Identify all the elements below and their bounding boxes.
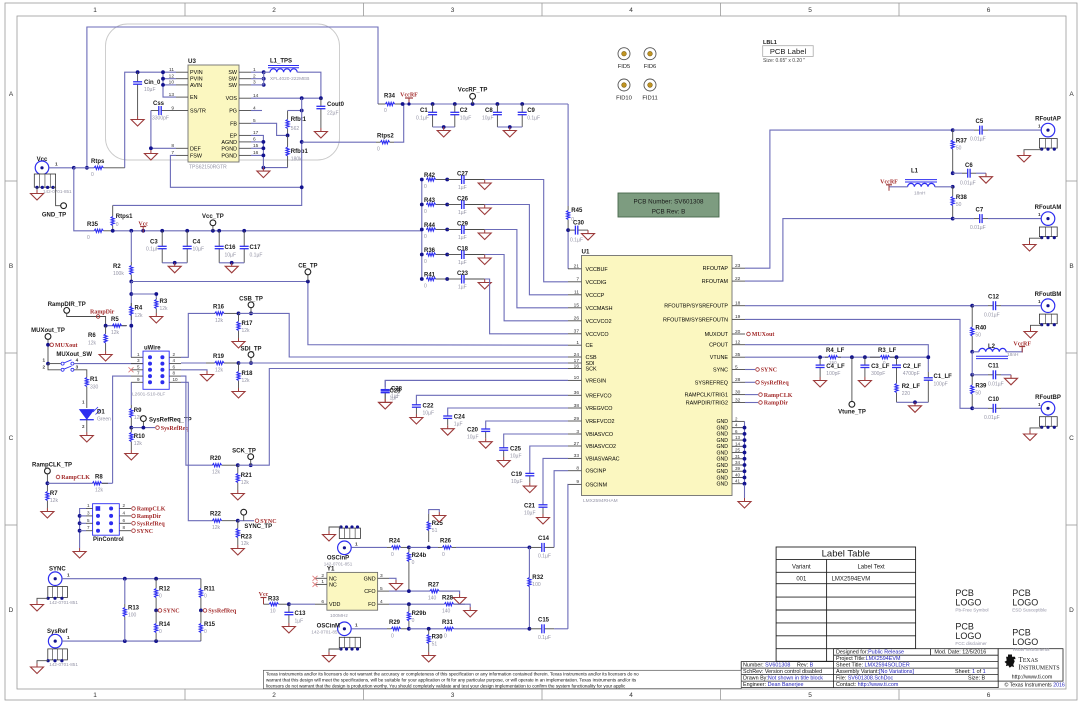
svg-text:GND: GND [716,438,728,444]
svg-text:1: 1 [576,340,579,346]
svg-text:MUXout_TP: MUXout_TP [31,328,65,334]
svg-text:50: 50 [956,146,962,152]
net label MUXout [50,343,54,347]
ground below C20 [479,438,492,448]
test point SDI_TP [250,355,252,363]
fiducial FID10 [618,79,630,91]
svg-text:RampDir: RampDir [90,310,115,316]
ground below R17 [232,338,245,348]
svg-text:R31: R31 [442,620,454,626]
wire CE net [129,280,133,284]
svg-text:LOGO: LOGO [1012,598,1038,608]
svg-text:GND: GND [716,457,728,463]
svg-text:CE: CE [586,343,594,349]
svg-text:C16: C16 [225,245,237,251]
svg-text:12k: 12k [111,330,120,336]
svg-text:0: 0 [442,552,445,558]
ground below C8 C9 [503,127,516,137]
svg-text:RampCLK: RampCLK [61,475,90,481]
svg-text:30: 30 [735,389,741,395]
svg-text:R10: R10 [134,434,146,440]
resistor R14 [155,610,157,623]
wire VccRF to R45 [567,104,569,206]
svg-text:RampDir: RampDir [137,514,162,520]
svg-text:7: 7 [87,525,90,530]
net label RampDir [96,315,100,319]
resistor R3_LF [870,356,880,358]
svg-text:C29: C29 [457,222,469,228]
svg-text:Size: 0.65" x 0.20 ": Size: 0.65" x 0.20 " [763,58,805,64]
svg-text:R34: R34 [384,94,396,100]
svg-text:8: 8 [173,371,176,376]
svg-text:3: 3 [137,358,140,363]
svg-text:PCB Number: SV601308: PCB Number: SV601308 [633,199,704,206]
svg-text:C5: C5 [976,119,984,125]
svg-text:MUXout_SW: MUXout_SW [56,352,92,358]
svg-text:SysRefReq: SysRefReq [208,609,237,615]
OSCinM connector shield [339,637,360,647]
ground below C19 [523,483,536,493]
svg-text:R45: R45 [571,208,583,214]
resistor R35 [93,230,95,232]
svg-text:1µF: 1µF [391,394,400,400]
svg-text:PCB: PCB [1012,588,1031,598]
wire FB node [251,123,288,135]
capacitor C28 [385,380,568,387]
svg-text:R18: R18 [242,371,254,377]
wire L1 to VOS node [297,72,321,98]
svg-text:GND: GND [716,432,728,438]
svg-text:140: 140 [442,609,451,615]
wire C27 to U1 [485,180,568,282]
svg-text:12k: 12k [160,306,169,312]
svg-text:1: 1 [55,162,58,168]
svg-text:FID5: FID5 [618,64,631,70]
test point CSB_TP [250,305,252,314]
test point CE_TP [307,272,309,282]
capacitor C16 [218,231,220,247]
resistor R34 [378,103,385,105]
wire C23 to U1 [485,279,568,334]
capacitor C4 [186,231,188,247]
wire SCK node [236,463,240,467]
RFoutAM ground [1030,238,1042,241]
svg-text:licensors do not warrant that: licensors do not warrant that the design… [266,683,626,688]
capacitor C24 [448,408,568,416]
capacitor C14 [528,546,532,550]
svg-text:C6: C6 [965,163,973,169]
svg-text:CFO: CFO [364,589,375,595]
svg-text:C25: C25 [510,447,522,453]
net label RampCLK on PinControl [132,507,136,511]
ground below R21 [231,490,244,500]
svg-text:Cin_0: Cin_0 [144,80,161,86]
svg-text:OSCINM: OSCINM [586,482,608,488]
header PinControl [93,504,120,536]
svg-text:R21: R21 [241,473,253,479]
svg-text:C3_LF: C3_LF [871,364,890,370]
wire switch pin3 to R1 [74,370,87,374]
svg-text:B: B [9,263,13,270]
resistor R24b [408,547,410,552]
svg-text:0.1µF: 0.1µF [527,116,540,122]
capacitor C1 [432,104,434,112]
resistor R38 [952,187,954,197]
capacitor C2 [454,104,456,112]
svg-text:100pF: 100pF [934,382,948,388]
svg-text:VREFVCO2: VREFVCO2 [586,419,615,425]
svg-text:40: 40 [735,472,741,477]
svg-text:R32: R32 [532,575,544,581]
wire VOS [251,97,321,99]
svg-text:FID6: FID6 [644,64,657,70]
svg-text:100: 100 [128,613,137,619]
R28 to ground [454,604,471,607]
ground below R6 [99,351,112,361]
ground after C6 [980,173,993,183]
svg-text:5: 5 [380,586,383,592]
svg-text:VCCBUF: VCCBUF [586,267,609,273]
resistor R4 [130,303,132,306]
svg-text:51: 51 [432,642,438,648]
svg-text:R17: R17 [242,321,254,327]
svg-text:4: 4 [629,7,633,14]
wire R45 to VCCBUF [567,230,569,269]
svg-text:12k: 12k [50,498,59,504]
svg-text:RampDir: RampDir [764,401,789,407]
net label SysRefReq mid [156,426,160,430]
svg-text:0.1µF: 0.1µF [570,238,583,244]
svg-text:RampCLK_TP: RampCLK_TP [32,463,72,469]
wire EP/AGND/PGND bus [251,135,263,167]
svg-text:15: 15 [574,303,580,309]
resistor Rfbb1 [287,135,289,147]
svg-text:4: 4 [380,599,383,605]
Texas Instruments logo [1005,655,1016,668]
svg-text:B: B [1069,263,1073,270]
resistor R13 [124,579,126,604]
svg-text:Vtune_TP: Vtune_TP [838,410,866,416]
wire FSW down [170,155,301,187]
svg-text:C: C [1069,435,1074,442]
svg-text:12k: 12k [95,488,104,494]
svg-text:28: 28 [735,377,741,383]
svg-text:Y1: Y1 [327,566,335,573]
capacitor C29 [445,228,449,232]
svg-text:RampDIR_TP: RampDIR_TP [48,302,86,308]
ground below C16 C17 [225,263,238,273]
net label SYNC mid [255,519,259,523]
svg-text:VCCVCO: VCCVCO [586,332,609,338]
ground below R23 [231,545,244,555]
ground below R30 [422,652,435,662]
svg-text:A: A [1069,91,1074,98]
svg-text:C21: C21 [524,504,536,510]
svg-text:VDD: VDD [329,602,340,608]
svg-text:Project Title:LMX2594EVM: Project Title:LMX2594EVM [836,656,901,662]
svg-text:NC: NC [329,582,337,588]
svg-text:INSTRUMENTS: INSTRUMENTS [1019,663,1060,671]
svg-text:36: 36 [574,390,580,396]
svg-text:VREGVCO: VREGVCO [586,406,613,412]
svg-text:1µF: 1µF [458,210,467,216]
svg-text:RFoutAP: RFoutAP [1035,117,1061,123]
svg-text:10µF: 10µF [511,479,523,485]
resistor R4_LF [818,355,822,359]
svg-text:Rfbb1: Rfbb1 [291,149,309,155]
wire C26 to U1 [485,205,568,295]
svg-text:C27: C27 [457,172,469,178]
ground below C21 [537,514,550,524]
wire Css to DEF [151,111,176,149]
svg-text:10µF: 10µF [144,87,156,93]
svg-text:330: 330 [90,385,99,391]
svg-text:VOS: VOS [226,96,238,102]
capacitor C28 [385,380,568,389]
svg-text:C15: C15 [538,618,550,624]
svg-text:R25: R25 [432,521,444,527]
svg-text:100pF: 100pF [826,371,840,377]
svg-text:C20: C20 [467,428,479,434]
svg-text:0.1µF: 0.1µF [538,635,551,641]
LED D1 [86,402,88,408]
regulator U3 [188,65,239,162]
svg-text:SDI_TP: SDI_TP [240,347,261,353]
wire C3 C4 ground join [162,262,187,264]
ground Y1 GND [390,580,403,590]
svg-text:12k: 12k [241,480,250,486]
svg-text:10µF: 10µF [467,435,479,441]
svg-text:4700pF: 4700pF [903,371,920,377]
svg-text:C13: C13 [295,611,307,617]
wire switch to uWire pin3 [74,363,143,365]
svg-text:142-0701-851: 142-0701-851 [49,662,78,667]
ground below C25 [497,457,510,467]
svg-text:R33: R33 [268,597,280,603]
bypass ladder bus [421,180,423,280]
svg-text:U3: U3 [188,58,196,65]
svg-text:C2_LF: C2_LF [903,364,922,370]
wire PVIN feed [125,72,176,168]
ground above R25 [433,512,446,522]
wire CSB node [237,312,241,316]
ground below C28 [379,399,392,409]
svg-text:18nH: 18nH [1007,352,1019,358]
svg-text:R23: R23 [241,535,253,541]
PinControl ground bus [80,509,86,549]
ground after C27 [478,180,491,190]
svg-text:EN: EN [190,95,198,101]
svg-text:RFoutBM: RFoutBM [1035,292,1062,298]
svg-text:R28: R28 [442,595,454,601]
svg-text:FO: FO [368,602,376,608]
test point SYNC_TP [243,512,245,521]
net label SysRefReq at U1 [745,381,755,383]
svg-text:Vcc_TP: Vcc_TP [202,214,224,220]
svg-text:R20: R20 [210,456,222,462]
wire Vcc vertical to top rail [87,27,378,168]
svg-text:C18: C18 [457,247,469,253]
capacitor Cout0 [320,98,322,106]
svg-text:PCB Rev: B: PCB Rev: B [652,209,686,216]
svg-text:R5: R5 [111,317,119,323]
svg-text:PCB: PCB [955,622,974,632]
svg-text:GND: GND [364,576,376,582]
svg-text:C2: C2 [460,108,468,114]
svg-text:PVIN: PVIN [190,77,203,83]
svg-text:0.01µF: 0.01µF [984,313,1000,319]
svg-text:R13: R13 [128,606,140,612]
svg-text:CE_TP: CE_TP [298,264,317,270]
svg-text:12k: 12k [134,441,143,447]
svg-text:38: 38 [574,403,580,409]
svg-text:DEF: DEF [190,146,201,152]
test point MUXout_TP [45,334,51,340]
svg-text:0.01µF: 0.01µF [970,225,986,231]
svg-text:C17: C17 [250,245,262,251]
svg-text:VCCCP: VCCCP [586,293,605,299]
svg-text:RFOUTAM: RFOUTAM [702,279,729,285]
svg-text:12: 12 [735,340,741,346]
resistor R45 [567,206,569,210]
svg-text:142-0701-851: 142-0701-851 [49,600,78,605]
svg-text:Green: Green [97,417,111,423]
svg-text:51: 51 [432,528,438,534]
ground after C29 [478,230,491,240]
svg-text:GND: GND [716,425,728,431]
svg-text:SW: SW [228,70,238,76]
svg-text:R9: R9 [134,408,142,414]
svg-text:R40: R40 [975,326,987,332]
ground below C22 [410,414,423,424]
wire VOS node vertical [113,98,302,205]
ground below C3_LF [858,377,871,387]
wire R31 row [407,627,411,631]
test point Vtune_TP [850,355,854,359]
svg-text:0: 0 [391,552,394,558]
svg-text:0.1µF: 0.1µF [146,247,159,253]
svg-text:1: 1 [87,503,90,508]
net label RampCLK [56,475,60,479]
svg-text:AVIN: AVIN [190,83,202,89]
net label SYNC on PinControl [132,529,136,533]
wire RampDIR [67,313,106,325]
svg-text:11: 11 [574,290,579,296]
svg-text:142-0701-851: 142-0701-851 [43,189,72,194]
svg-text:R43: R43 [424,198,436,204]
svg-text:Rtps1: Rtps1 [116,214,133,220]
svg-text:C26: C26 [457,197,469,203]
resistor R6 [105,326,107,334]
svg-text:R3: R3 [160,299,168,305]
resistor R16 [213,312,216,314]
svg-text:300pF: 300pF [871,371,885,377]
resistor R28 [443,603,445,605]
svg-text:2: 2 [272,692,276,699]
svg-text:FSW: FSW [190,153,203,159]
svg-text:0: 0 [412,618,415,624]
svg-text:0: 0 [412,560,415,566]
svg-text:FCC disclaimer: FCC disclaimer [955,641,987,646]
capacitor C18 [445,253,449,257]
resistor Rtps [93,167,95,169]
resistor R22 [211,520,213,522]
resistor R5 [111,325,113,327]
resistor R29b [408,604,410,612]
svg-text:C14: C14 [538,536,550,542]
svg-text:1: 1 [355,623,358,629]
capacitor C26 [445,203,449,207]
svg-text:3: 3 [451,692,455,699]
wire RFOUTBM to C10 [745,319,972,408]
test point GND_TP [53,187,61,205]
svg-text:EP: EP [230,133,238,139]
svg-text:C11: C11 [988,364,999,370]
svg-text:C1: C1 [420,108,428,114]
capacitor Cin_0 [136,70,140,74]
capacitor C22 [416,395,568,405]
capacitor C3_LF [863,355,867,359]
svg-text:http://www.ti.com: http://www.ti.com [1012,675,1053,681]
ground below C28 [379,399,392,409]
svg-text:Mod. Date: 12/5/2016: Mod. Date: 12/5/2016 [934,650,986,656]
R25 top to ground [429,510,440,514]
PCB number box [618,193,719,217]
svg-text:C24: C24 [454,415,466,421]
svg-text:6: 6 [987,7,991,14]
svg-text:1: 1 [1038,212,1041,218]
svg-text:1: 1 [67,635,70,641]
svg-text:12k: 12k [88,341,97,347]
svg-text:3: 3 [576,429,579,435]
svg-text:SysRefReq_TP: SysRefReq_TP [149,418,192,424]
svg-text:17: 17 [574,358,580,364]
svg-text:D: D [9,607,14,614]
fiducial FID5 [618,48,630,60]
svg-text:Size: B: Size: B [968,676,985,682]
svg-text:RFoutAM: RFoutAM [1035,205,1062,211]
svg-text:1: 1 [1038,402,1041,408]
wire RFOUTAM to C7 [745,219,953,282]
ground below DEF node [144,150,157,160]
svg-text:0: 0 [424,259,427,265]
svg-text:10µF: 10µF [423,411,435,417]
resistor R31 [443,628,445,630]
R27 to ground [439,591,460,594]
svg-text:LOGO: LOGO [1012,637,1038,647]
svg-text:27: 27 [574,441,580,447]
capacitor C15 [529,628,541,630]
svg-text:warrant that this design will: warrant that this design will meet the s… [266,677,637,682]
power flag VccRF at L1 [889,186,908,188]
svg-text:41: 41 [735,479,741,484]
capacitor C5 [951,128,955,132]
svg-text:RFOUTBM/SYSREFOUTN: RFOUTBM/SYSREFOUTN [663,317,728,323]
capacitor C8 [496,104,498,112]
svg-text:10µF: 10µF [225,253,237,259]
capacitor C27 [445,178,449,182]
resistor R30 [428,629,430,635]
svg-text:VCCVCO2: VCCVCO2 [586,319,612,325]
svg-text:SysRefReq: SysRefReq [761,381,790,387]
svg-text:C23: C23 [457,271,469,277]
svg-text:23: 23 [735,263,741,269]
svg-text:12k: 12k [242,378,251,384]
svg-text:D: D [1069,607,1074,614]
svg-text:1: 1 [321,579,324,585]
svg-text:Css: Css [153,101,165,107]
svg-text:1: 1 [93,7,97,14]
